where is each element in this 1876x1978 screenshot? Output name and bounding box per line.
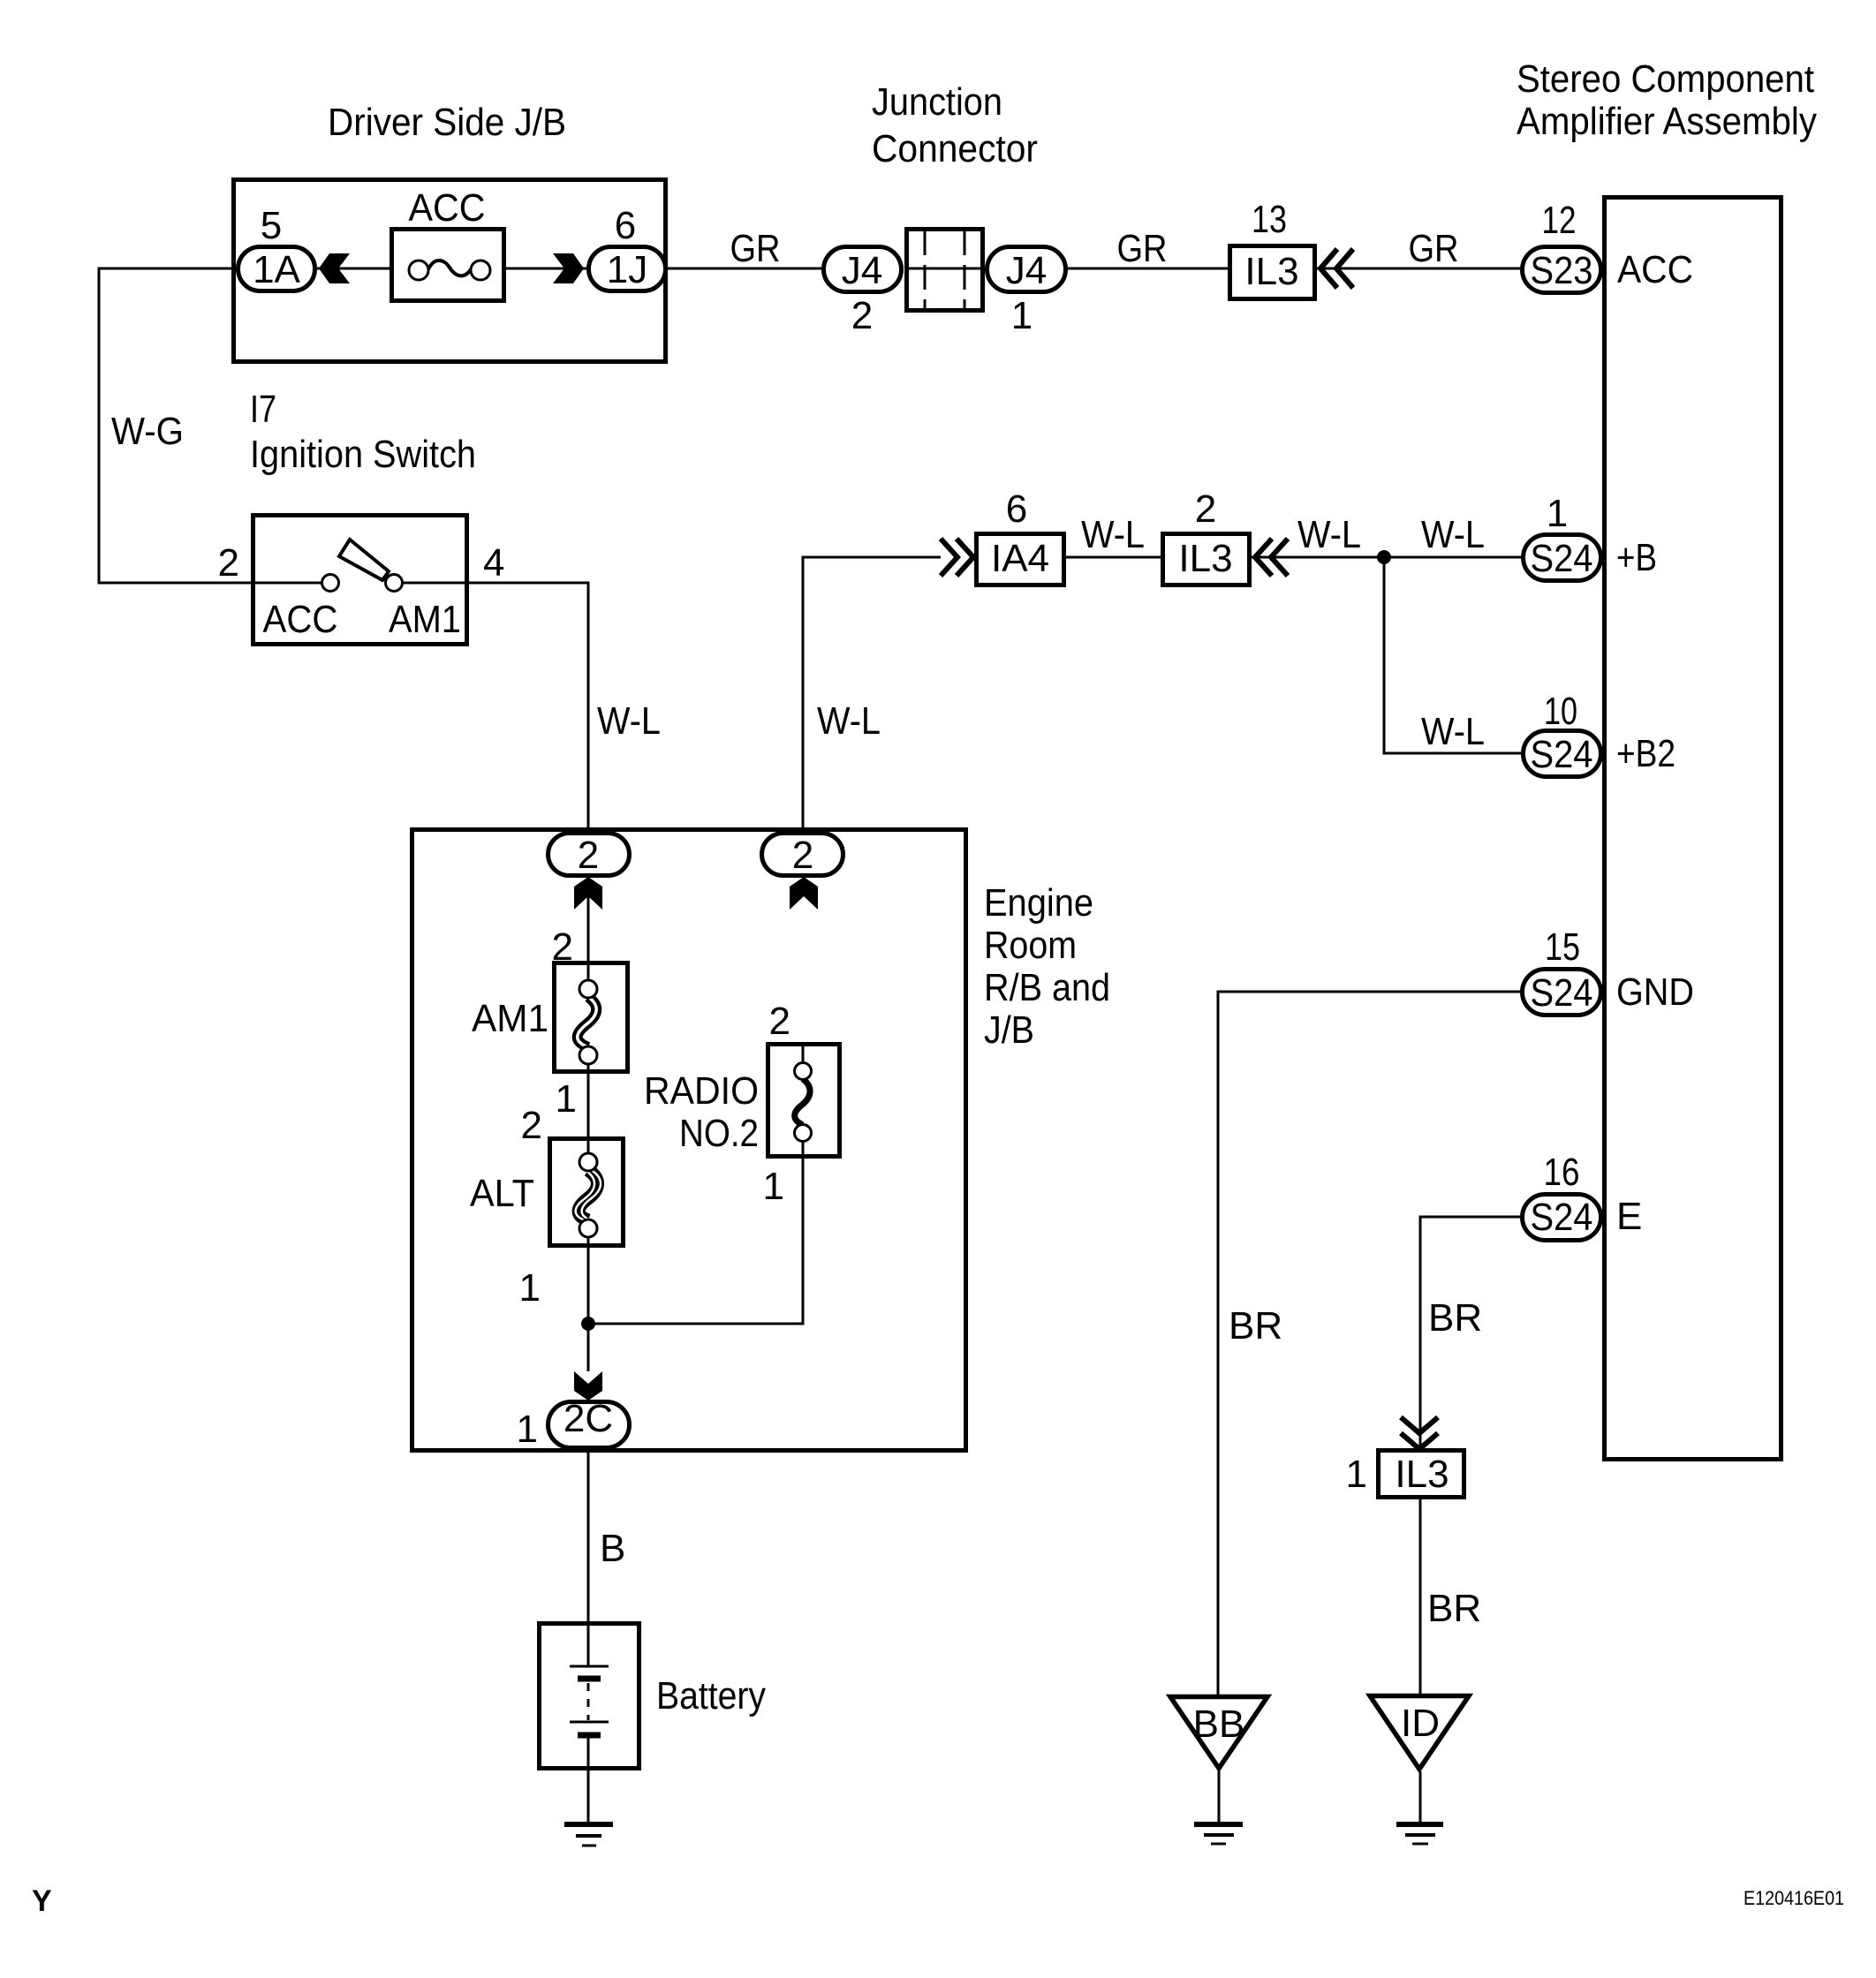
svg-text:Driver Side J/B: Driver Side J/B	[328, 101, 566, 144]
svg-text:S23: S23	[1531, 249, 1593, 292]
svg-text:IL3: IL3	[1244, 250, 1298, 293]
svg-text:6: 6	[1006, 487, 1027, 531]
wire ignition to engine room	[469, 583, 588, 831]
wire 2C to battery	[587, 1450, 590, 1666]
junction node	[581, 1317, 595, 1331]
connector IL3 pin 2	[1163, 487, 1250, 585]
arrow up into 2	[574, 877, 602, 910]
svg-text:BB: BB	[1193, 1702, 1245, 1746]
svg-text:1: 1	[1346, 1453, 1367, 1496]
wire 1J to J4	[668, 268, 821, 270]
svg-text:J4: J4	[842, 249, 882, 292]
arrow into 1A	[319, 253, 350, 283]
svg-text:Amplifier Assembly: Amplifier Assembly	[1517, 100, 1817, 143]
svg-text:1: 1	[1547, 492, 1568, 535]
svg-text:GND: GND	[1616, 970, 1694, 1014]
svg-text:J4: J4	[1006, 249, 1047, 292]
svg-text:W-G: W-G	[111, 410, 184, 453]
svg-text:E120416E01: E120416E01	[1744, 1887, 1844, 1909]
svg-text:GR: GR	[730, 227, 781, 270]
svg-text:W-L: W-L	[1421, 710, 1485, 753]
junction connector box	[904, 230, 985, 311]
svg-text:R/B and: R/B and	[984, 966, 1110, 1009]
connector IL3 pin 1	[1346, 1451, 1464, 1498]
svg-text:W-L: W-L	[1421, 513, 1485, 556]
connector 2 (right)	[762, 834, 843, 878]
svg-text:2: 2	[552, 925, 573, 969]
svg-text:Stereo Component: Stereo Component	[1517, 57, 1814, 101]
svg-text:Connector: Connector	[872, 127, 1038, 170]
connector J4 pin 1	[987, 247, 1066, 338]
svg-text:2: 2	[578, 834, 599, 877]
svg-text:BR: BR	[1229, 1304, 1282, 1348]
svg-text:Ignition Switch: Ignition Switch	[250, 433, 476, 476]
svg-text:ACC: ACC	[263, 598, 338, 641]
svg-text:IL3: IL3	[1395, 1453, 1449, 1496]
svg-text:Engine: Engine	[984, 881, 1093, 925]
wire engine room to IA4	[803, 557, 941, 831]
svg-text:Junction: Junction	[872, 80, 1002, 124]
wire GND to BB	[1218, 992, 1521, 1695]
connector 2C pin 1	[517, 1397, 630, 1451]
svg-text:+B2: +B2	[1616, 732, 1676, 775]
svg-text:GR: GR	[1117, 227, 1168, 270]
fuse AM1	[472, 925, 628, 1121]
svg-text:Y: Y	[32, 1884, 52, 1918]
svg-text:13: 13	[1252, 198, 1287, 241]
wire oval2 to AM1 fuse	[587, 878, 590, 961]
svg-text:IL3: IL3	[1178, 537, 1232, 580]
wire branch to RADIO NO.2	[588, 1159, 803, 1324]
svg-text:12: 12	[1542, 199, 1577, 242]
svg-text:AM1: AM1	[472, 997, 548, 1040]
connector IA4 pin 6	[977, 487, 1064, 585]
switch lever	[339, 540, 389, 580]
svg-text:IA4: IA4	[991, 537, 1049, 580]
svg-text:S24: S24	[1531, 537, 1593, 580]
junction node	[1377, 550, 1391, 564]
svg-text:RADIO: RADIO	[644, 1069, 759, 1113]
wire IL3 to S23	[1317, 268, 1520, 270]
wire IL3 to ID	[1419, 1499, 1422, 1694]
connector 1J pin 6	[589, 204, 666, 291]
chevrons into IL3 (down)	[1401, 1417, 1438, 1449]
connector S24 pin 10	[1524, 690, 1601, 777]
svg-text:GR: GR	[1409, 227, 1459, 270]
wire E to IL3	[1420, 1217, 1521, 1448]
chevrons at IL3	[1320, 249, 1353, 288]
svg-text:2: 2	[851, 294, 873, 337]
svg-text:Room: Room	[984, 924, 1077, 967]
wire IA4 to IL3	[1066, 556, 1161, 559]
svg-text:BR: BR	[1427, 1587, 1481, 1630]
fuse RADIO NO.2	[644, 1000, 840, 1208]
wire ALT to junction dot	[587, 1248, 590, 1371]
arrow down into 2C	[574, 1371, 602, 1400]
chevrons into IA4	[941, 539, 973, 576]
svg-text:2: 2	[218, 541, 239, 585]
svg-text:W-L: W-L	[1081, 513, 1145, 556]
svg-text:W-L: W-L	[597, 699, 661, 743]
svg-text:15: 15	[1545, 925, 1580, 969]
wire ACC fuse to 1J	[506, 268, 586, 270]
svg-text:ALT: ALT	[470, 1172, 534, 1215]
svg-text:ACC: ACC	[409, 186, 486, 230]
svg-text:ACC: ACC	[1617, 248, 1693, 291]
wire 1A to ACC fuse	[317, 268, 390, 270]
connector 1A pin 5	[238, 204, 315, 291]
fuse ALT	[470, 1104, 624, 1310]
svg-text:5: 5	[261, 204, 282, 247]
wire W-G from 1A to ignition switch	[99, 268, 251, 583]
svg-text:S24: S24	[1531, 971, 1593, 1015]
fuse ACC	[392, 186, 504, 301]
arrow into 1J	[553, 253, 584, 283]
Driver Side J/B box	[234, 180, 666, 362]
battery	[540, 1624, 767, 1823]
svg-text:+B: +B	[1616, 536, 1657, 579]
wire branch to +B2	[1384, 557, 1521, 753]
svg-text:1: 1	[556, 1077, 577, 1121]
ground symbol ID	[1370, 1696, 1469, 1845]
svg-text:BR: BR	[1428, 1296, 1482, 1340]
svg-text:2: 2	[792, 834, 813, 877]
svg-text:B: B	[600, 1527, 625, 1570]
connector S24 pin 16	[1523, 1151, 1601, 1241]
svg-text:I7: I7	[250, 388, 276, 431]
connector J4 pin 2	[824, 247, 902, 338]
svg-text:1: 1	[763, 1165, 784, 1208]
svg-text:1: 1	[519, 1266, 541, 1310]
engine room R/B and J/B box	[412, 830, 966, 1451]
ground battery	[564, 1824, 613, 1846]
connector 2 (left)	[548, 834, 630, 878]
svg-text:2C: 2C	[564, 1397, 613, 1440]
wire J4 to IL3	[1068, 268, 1228, 270]
connector IL3 pin 13	[1230, 198, 1315, 299]
svg-text:1A: 1A	[253, 248, 300, 291]
wire IL3 to S24 +B	[1252, 556, 1521, 559]
svg-text:1J: 1J	[607, 248, 647, 291]
connector S24 pin 15	[1523, 925, 1601, 1015]
svg-text:2: 2	[521, 1104, 542, 1147]
svg-text:NO.2: NO.2	[679, 1112, 759, 1155]
svg-text:ID: ID	[1401, 1702, 1440, 1745]
svg-text:2: 2	[769, 1000, 790, 1043]
svg-text:AM1: AM1	[389, 598, 461, 641]
svg-text:10: 10	[1544, 690, 1577, 733]
svg-text:1: 1	[1011, 294, 1033, 337]
svg-text:J/B: J/B	[984, 1008, 1034, 1052]
arrow up into 2	[790, 877, 818, 910]
connector S23 pin 12	[1523, 199, 1601, 293]
ground symbol BB	[1170, 1697, 1267, 1845]
svg-text:S24: S24	[1531, 733, 1593, 776]
svg-text:2: 2	[1195, 487, 1216, 531]
svg-text:S24: S24	[1531, 1196, 1593, 1239]
svg-text:1: 1	[517, 1408, 538, 1451]
svg-text:Battery: Battery	[656, 1674, 766, 1718]
svg-text:16: 16	[1544, 1151, 1580, 1194]
amplifier assembly box	[1605, 198, 1781, 1460]
svg-text:W-L: W-L	[1297, 513, 1361, 556]
wire AM1 to ALT	[587, 1074, 590, 1136]
connector S24 pin 1	[1524, 492, 1601, 581]
svg-text:6: 6	[615, 204, 636, 247]
chevrons at IL3	[1255, 539, 1288, 576]
svg-text:W-L: W-L	[817, 699, 881, 743]
svg-text:4: 4	[483, 541, 504, 585]
svg-text:E: E	[1616, 1195, 1642, 1238]
